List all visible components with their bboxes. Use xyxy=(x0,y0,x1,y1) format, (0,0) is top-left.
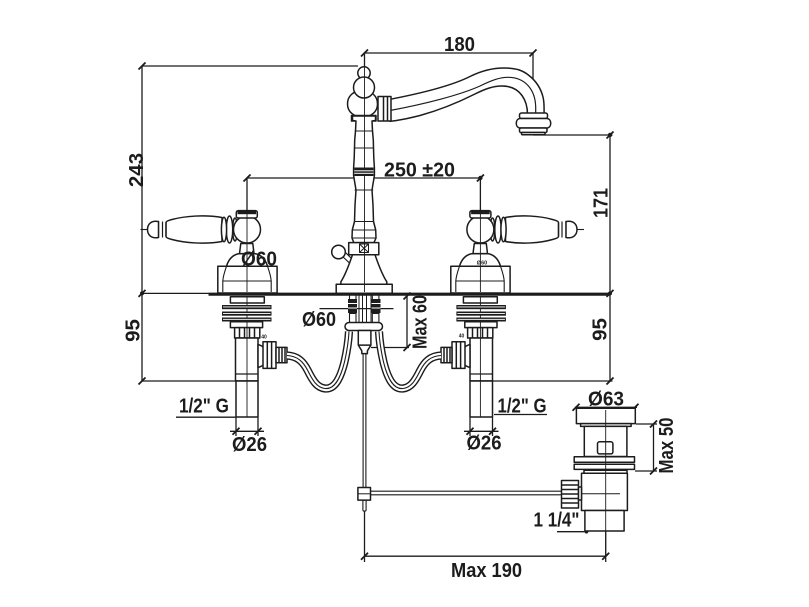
dim Max50 vertical line xyxy=(653,424,655,471)
right handle grip end rings xyxy=(559,221,567,238)
left handle axis tick xyxy=(141,229,148,231)
right valve threaded shank xyxy=(468,328,493,338)
drain body axis line xyxy=(582,493,621,495)
svg-text:Ø26: Ø26 xyxy=(232,433,267,456)
spout arm tube xyxy=(390,68,544,121)
column body silhouette xyxy=(352,116,376,243)
drain rib plate 1 xyxy=(574,457,634,463)
svg-text:Ø63: Ø63 xyxy=(588,388,624,411)
column base plate xyxy=(336,284,392,293)
column segment lines xyxy=(352,131,376,238)
dim 250 line xyxy=(247,177,480,179)
right flexible hose core xyxy=(379,332,441,389)
right valve hex nut xyxy=(452,342,465,369)
centre supply pipe lines xyxy=(359,293,371,322)
left valve bottom tube xyxy=(236,381,258,417)
dim Ø26 left xyxy=(230,418,264,437)
right handle cap xyxy=(470,211,491,218)
svg-text:180: 180 xyxy=(444,33,475,56)
right handle bonnet bell xyxy=(456,266,504,292)
right handle centreline xyxy=(479,178,481,417)
left handle cap xyxy=(236,211,257,218)
svg-text:243: 243 xyxy=(125,153,148,187)
drain overflow window xyxy=(598,442,613,454)
right handle cap top xyxy=(471,211,490,215)
right handle neck xyxy=(473,244,488,254)
right handle ball xyxy=(467,216,494,243)
svg-text:40: 40 xyxy=(261,335,267,341)
label 1 1/4 underline xyxy=(557,531,588,533)
right valve locknut lower xyxy=(465,322,497,328)
right handle grip xyxy=(506,216,559,243)
left flexible hose core xyxy=(287,332,349,389)
svg-text:250 ±20: 250 ±20 xyxy=(384,159,455,182)
pop-up knob stem xyxy=(342,253,354,264)
column finial small ball xyxy=(358,67,370,79)
left handle grip xyxy=(166,216,222,243)
left handle base plate xyxy=(218,266,277,293)
left valve hose nipple xyxy=(276,347,287,362)
drain flange xyxy=(576,408,635,423)
spout arm middle contour line xyxy=(390,77,536,114)
left valve step collar xyxy=(236,374,259,381)
pop-up rod coupler xyxy=(358,488,371,501)
svg-text:1/2" G: 1/2" G xyxy=(179,395,229,418)
spout joint collar xyxy=(378,97,391,122)
dim 180 line xyxy=(365,52,533,54)
left valve washer plates xyxy=(222,305,272,309)
svg-text:Max 50: Max 50 xyxy=(655,418,678,474)
left valve hex nut xyxy=(263,342,276,369)
dim 250 left extension xyxy=(246,178,248,217)
pop-up knob xyxy=(332,245,346,259)
pop-up rod lower stub xyxy=(363,500,366,511)
spout outlet mouth xyxy=(522,133,546,135)
svg-text:1/2" G: 1/2" G xyxy=(498,395,547,418)
right flexible hose centreline xyxy=(379,332,441,389)
left handle bonnet bell xyxy=(223,266,271,292)
drain nut stub xyxy=(579,487,582,500)
dim 250 right extension xyxy=(479,178,481,211)
column housing collar xyxy=(352,116,377,122)
column centreline xyxy=(364,53,366,292)
left handle bonnet dome xyxy=(227,254,268,267)
dim Max60 vertical line xyxy=(406,296,408,348)
dim 243 vertical line xyxy=(141,66,143,293)
left handle grip end rings xyxy=(159,221,167,238)
dim 171 vertical line xyxy=(609,135,611,293)
pop-up rod coupler midline xyxy=(358,493,371,495)
dim Max190 left extension xyxy=(364,511,366,562)
drain rib plate 2 xyxy=(574,464,634,469)
svg-text:Ø60: Ø60 xyxy=(302,308,336,331)
right valve bottom tube xyxy=(470,381,493,417)
left valve threaded shank xyxy=(235,328,260,338)
right valve body pipe xyxy=(470,338,493,381)
svg-text:95: 95 xyxy=(589,318,612,341)
dim Max60 bottom extension xyxy=(371,347,409,349)
svg-text:95: 95 xyxy=(122,319,145,342)
column finial big ball xyxy=(354,77,375,98)
svg-text:Max 190: Max 190 xyxy=(451,559,522,582)
left flexible hose centreline xyxy=(287,332,349,389)
column knurled band xyxy=(354,168,373,176)
dim 180 left extension xyxy=(364,53,366,67)
dim 171 top extension xyxy=(533,134,613,136)
dimension end dots xyxy=(478,176,482,180)
right valve locknut upper xyxy=(463,297,497,303)
left handle centreline xyxy=(246,178,248,417)
right flexible hose outer xyxy=(379,332,441,389)
drain knurled nut xyxy=(562,481,579,509)
dim 243 top extension xyxy=(142,65,358,67)
drain flange lip xyxy=(581,424,632,427)
bleed screw square xyxy=(360,244,369,253)
dim Max50 extensions xyxy=(635,424,657,471)
centre stud nuts xyxy=(348,299,357,313)
leader Ø60 centre xyxy=(320,308,394,310)
column housing ball xyxy=(348,91,378,118)
centre mounting studs xyxy=(350,293,379,322)
label 1/2 G left underline xyxy=(176,416,236,418)
left valve olive xyxy=(258,345,267,368)
svg-text:Ø60: Ø60 xyxy=(477,261,487,267)
left handle cap top xyxy=(238,211,257,215)
right handle axis tick xyxy=(577,229,584,231)
dim 95 left vertical line xyxy=(141,293,143,381)
dim Max190 line xyxy=(365,555,606,557)
left handle ball xyxy=(234,216,261,243)
dim Ø26 right xyxy=(464,418,499,437)
spout outlet lower lip xyxy=(520,128,548,133)
left valve locknut upper xyxy=(230,297,264,303)
left handle neck xyxy=(240,244,255,254)
spout outlet bell xyxy=(516,119,550,129)
label 1/2 G right underline xyxy=(494,414,547,416)
pop-up vertical rod xyxy=(363,354,366,488)
svg-text:171: 171 xyxy=(590,188,613,218)
left flexible hose outer xyxy=(287,332,349,389)
svg-text:Ø26: Ø26 xyxy=(467,432,502,455)
column base bell xyxy=(341,255,387,284)
dim 95 left bottom extension xyxy=(142,380,236,382)
svg-text:1 1/4": 1 1/4" xyxy=(534,509,580,532)
drain upper tube xyxy=(584,426,627,456)
right handle rings xyxy=(490,218,495,241)
left handle rings xyxy=(233,218,238,241)
dim Max190 right extension xyxy=(605,531,607,562)
drain locking band xyxy=(584,470,627,473)
left valve locknut lower xyxy=(230,322,262,328)
countertop line thick xyxy=(209,293,611,296)
svg-text:40: 40 xyxy=(459,334,465,340)
right valve washer plates xyxy=(456,305,506,309)
countertop line thin left xyxy=(142,292,209,294)
dim 180 right extension / spout end centerline xyxy=(532,53,534,135)
right valve step collar xyxy=(470,374,493,381)
left handle knob xyxy=(148,221,159,238)
right handle bonnet dome xyxy=(460,254,501,267)
drain centreline xyxy=(605,410,607,556)
right handle base plate xyxy=(451,266,510,293)
svg-text:Ø60: Ø60 xyxy=(241,248,277,271)
spout outlet upper lip xyxy=(520,113,548,119)
escutcheon block xyxy=(349,243,379,255)
drain lower body xyxy=(582,473,628,510)
centre mounting bracket xyxy=(345,323,383,331)
right handle knob xyxy=(566,221,577,238)
dim 95 right vertical line xyxy=(609,293,611,381)
right valve olive xyxy=(462,345,471,368)
right valve hose nipple xyxy=(441,347,452,362)
left valve body pipe xyxy=(236,338,259,381)
tick marks xyxy=(361,50,368,57)
svg-text:Max 60: Max 60 xyxy=(409,295,432,349)
drain tailpiece xyxy=(585,511,624,532)
centre hose tee xyxy=(358,331,371,354)
pop-up horizontal rod xyxy=(371,491,562,495)
dim 95 right bottom extension xyxy=(493,380,613,382)
dim Ø63 line xyxy=(575,406,637,408)
